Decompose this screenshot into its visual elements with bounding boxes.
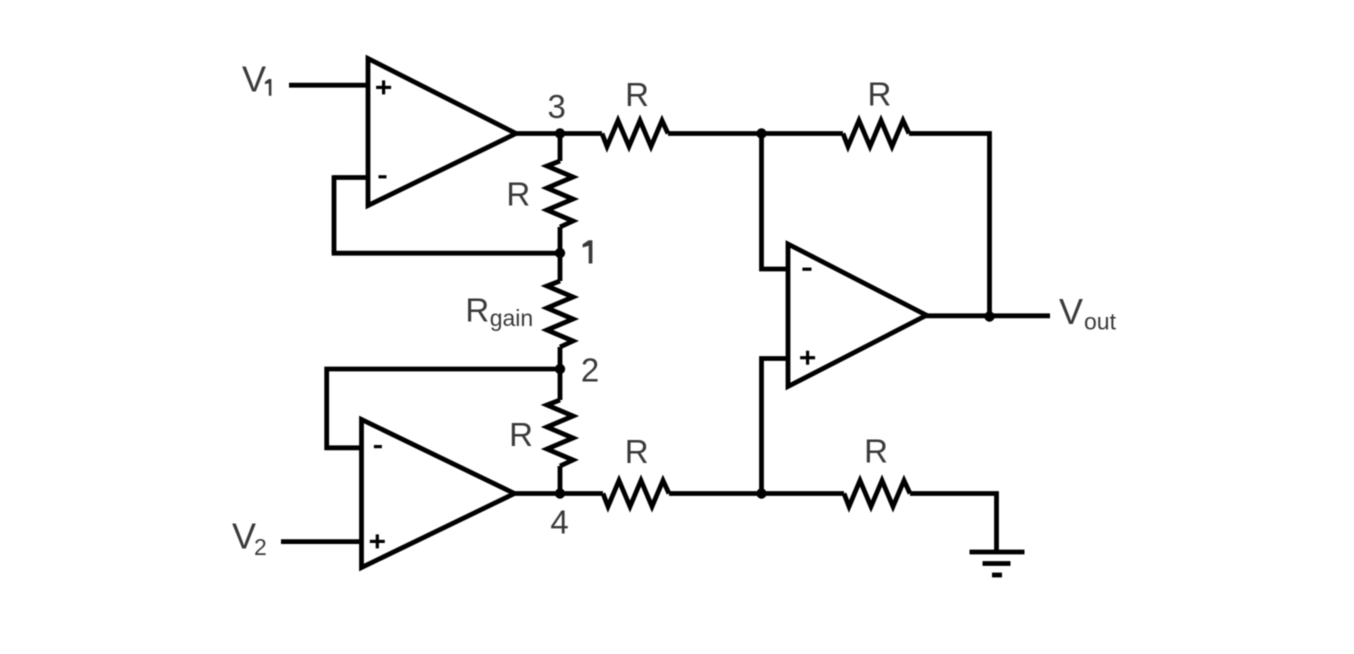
svg-text:R: R [867, 76, 891, 113]
node B junction [756, 488, 766, 498]
label Rgain [465, 291, 533, 331]
resistor R (node 3 to node A) [602, 121, 668, 147]
svg-text:R: R [625, 433, 649, 470]
wire node A to U3 inverting input [762, 134, 789, 270]
wire resistor Rgain to node 2 [558, 347, 563, 400]
op-amp U1 inverting input marker - [379, 175, 387, 178]
wire U1 inverting input stub [334, 175, 368, 180]
resistor R (node 4 to node B) [603, 481, 669, 507]
wire node B to U3 non-inverting input [762, 359, 789, 494]
wire node A rail [668, 131, 843, 136]
wire feedback resistor to Vout node [909, 134, 990, 316]
resistor Rgain (node 1 to node 2, vertical) [547, 281, 573, 347]
wire node 3 down to resistor R [558, 134, 563, 162]
wire U1 output to node 3 [514, 131, 602, 136]
op-amp U2 non-inverting input marker + [370, 534, 385, 548]
op-amp U1 (top left buffer) [368, 59, 516, 206]
ground [970, 552, 1025, 575]
svg-text:4: 4 [550, 504, 568, 541]
svg-text:R: R [625, 76, 649, 113]
wire resistor to node 1 [558, 227, 563, 281]
svg-text:V: V [232, 516, 256, 557]
svg-text:R: R [864, 433, 888, 470]
resistor R (node 2 to node 4, vertical) [547, 400, 573, 466]
wire resistor to node 4 [558, 466, 563, 494]
node 4 [555, 488, 565, 498]
wire V1 input to U1 + [289, 83, 368, 88]
wire U3 output to Vout [924, 313, 1050, 318]
svg-text:2: 2 [254, 534, 267, 560]
wire U1 feedback vertical [332, 175, 337, 253]
wire node 1 feedback horizontal [332, 251, 560, 256]
label Vout [1059, 291, 1117, 335]
node 3 [555, 128, 565, 138]
node 2 [555, 364, 565, 374]
svg-text:2: 2 [581, 351, 599, 388]
resistor R (node 3 to node 1, vertical) [547, 161, 573, 227]
svg-text:V: V [242, 59, 266, 100]
op-amp U2 (bottom left buffer) [362, 420, 515, 568]
svg-text:R: R [509, 416, 533, 453]
svg-text:out: out [1084, 309, 1117, 335]
resistor R (node B to ground) [844, 481, 910, 507]
wire V2 input to U2 + [281, 539, 362, 544]
label node 1 [583, 240, 593, 263]
resistor R (U3 feedback) [843, 121, 909, 147]
node A junction [756, 128, 766, 138]
op-amp U1 non-inverting input marker + [376, 80, 391, 94]
op-amp U3 non-inverting input marker + [800, 351, 815, 365]
node Vout junction [984, 311, 994, 321]
svg-text:3: 3 [548, 88, 566, 125]
svg-text:R: R [465, 291, 489, 328]
op-amp U2 inverting input marker - [374, 445, 382, 448]
wire node 2 feedback to U2 inverting input [327, 369, 560, 448]
node 1 [555, 248, 565, 258]
wire U2 output to node 4 [512, 491, 603, 496]
svg-text:R: R [506, 176, 530, 213]
op-amp U3 inverting input marker - [802, 268, 811, 271]
svg-text:gain: gain [490, 305, 533, 331]
op-amp U3 (output difference amp) [788, 244, 927, 387]
label V1 [242, 59, 271, 100]
wire node B rail [669, 491, 844, 496]
wire resistor to ground [910, 494, 997, 553]
label V2 [232, 516, 267, 561]
svg-text:V: V [1059, 291, 1083, 332]
